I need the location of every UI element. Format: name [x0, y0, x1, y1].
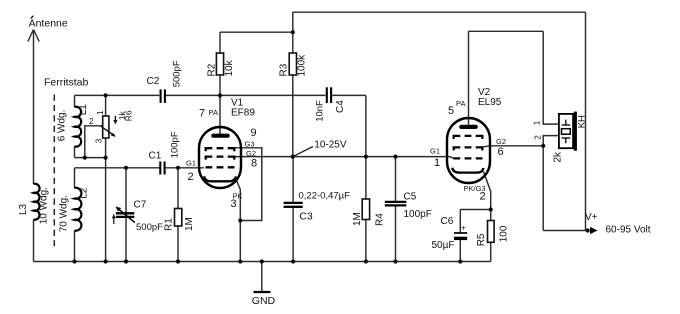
svg-text:V+: V+ [585, 212, 598, 223]
svg-text:C1: C1 [149, 150, 162, 161]
svg-text:GND: GND [252, 295, 276, 307]
svg-text:9: 9 [251, 127, 257, 139]
svg-text:100k: 100k [297, 54, 308, 77]
svg-text:1: 1 [532, 120, 541, 125]
svg-text:R2: R2 [207, 63, 218, 76]
svg-text:10k: 10k [224, 59, 235, 76]
svg-text:100pF: 100pF [170, 131, 181, 158]
svg-text:70 Wdg.: 70 Wdg. [58, 195, 69, 232]
svg-text:C2: C2 [147, 76, 160, 87]
svg-text:G2: G2 [496, 137, 506, 146]
svg-text:C7: C7 [134, 199, 147, 210]
svg-text:KH: KH [576, 115, 587, 128]
svg-text:R6: R6 [124, 110, 134, 121]
svg-text:L2: L2 [79, 187, 90, 199]
svg-text:L3: L3 [18, 203, 29, 215]
svg-text:R5: R5 [476, 233, 487, 246]
svg-text:Ferritstab: Ferritstab [44, 76, 89, 88]
svg-text:1: 1 [434, 157, 440, 169]
svg-text:100pF: 100pF [404, 209, 432, 220]
svg-text:6: 6 [498, 146, 504, 158]
svg-text:C5: C5 [404, 191, 417, 202]
svg-text:10 Wdg.: 10 Wdg. [39, 187, 50, 224]
svg-text:1M: 1M [352, 212, 363, 226]
svg-text:C3: C3 [299, 211, 313, 223]
svg-text:5: 5 [448, 105, 454, 117]
svg-text:R1: R1 [164, 218, 175, 231]
svg-text:60-95 Volt: 60-95 Volt [606, 224, 651, 235]
svg-text:500pF: 500pF [172, 60, 183, 87]
svg-text:R4: R4 [374, 213, 385, 226]
svg-text:10-25V: 10-25V [314, 139, 347, 150]
svg-text:Antenne: Antenne [29, 17, 68, 29]
svg-text:2k: 2k [552, 151, 563, 163]
svg-text:1M: 1M [184, 217, 195, 231]
svg-text:PA: PA [209, 108, 218, 117]
svg-text:1: 1 [96, 110, 105, 115]
svg-text:+: + [461, 223, 466, 232]
svg-text:L1: L1 [78, 104, 89, 116]
svg-text:PA: PA [456, 99, 465, 108]
svg-text:50µF: 50µF [432, 240, 455, 251]
svg-text:6 Wdg.: 6 Wdg. [56, 110, 67, 142]
svg-text:3: 3 [231, 198, 237, 210]
svg-text:7: 7 [199, 107, 205, 119]
svg-text:500pF: 500pF [136, 222, 163, 233]
svg-text:10nF: 10nF [315, 100, 326, 122]
svg-text:2: 2 [480, 190, 486, 202]
svg-text:C6: C6 [441, 216, 454, 227]
svg-text:2: 2 [89, 117, 94, 126]
svg-text:8: 8 [251, 158, 257, 170]
svg-text:0,22-0,47µF: 0,22-0,47µF [299, 190, 351, 201]
svg-text:2: 2 [533, 135, 542, 140]
svg-text:3: 3 [95, 138, 104, 143]
svg-text:EF89: EF89 [231, 107, 255, 118]
svg-text:2: 2 [188, 171, 194, 183]
svg-text:G1: G1 [430, 146, 440, 155]
svg-text:100: 100 [499, 225, 510, 242]
svg-text:R3: R3 [279, 63, 290, 76]
svg-text:C4: C4 [335, 100, 346, 113]
svg-text:EL95: EL95 [478, 97, 502, 108]
svg-text:G1: G1 [186, 159, 196, 168]
svg-text:G3: G3 [245, 139, 255, 148]
